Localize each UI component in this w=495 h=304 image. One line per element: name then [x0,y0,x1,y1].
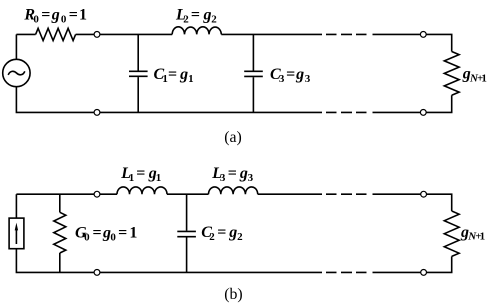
current source I1 box [9,218,24,249]
node terminal b-top-left [94,191,100,197]
wire bottom left [16,249,94,273]
capacitor C2 plates [177,231,196,236]
dashed continuation b-top [326,193,367,195]
resistor gN+1 load (a) [444,52,459,96]
wire source to top rail [15,34,17,59]
svg-text:L2=g2: L2=g2 [175,6,217,25]
svg-text:C2=g2: C2=g2 [201,224,243,243]
wire terminal to load corner [427,194,452,211]
current source arrow shaft [15,229,17,245]
wire source to top rail [15,194,17,218]
resistor G0 [54,212,66,253]
wire bottom middle [100,271,322,273]
svg-text:gN+1: gN+1 [462,66,487,85]
svg-text:C1=g1: C1=g1 [154,66,194,85]
capacitor C2 stem bottom [186,238,188,273]
sine symbol inside source [8,71,25,75]
dashed continuation a-top [326,33,367,35]
wire G0 junction to resistor [59,194,61,212]
inductor L3 [209,187,258,194]
node terminal a-top-left [94,32,100,38]
wire between inductors (through C2 node) [167,193,209,195]
svg-text:L3=g3: L3=g3 [211,165,253,184]
capacitor C3 stem bottom [252,77,254,112]
wire resistor to bottom rail [59,253,61,272]
wire dashed to right terminal [373,33,421,35]
svg-text:(a): (a) [224,129,242,146]
current source arrow head [15,223,18,231]
svg-text:L1=g1: L1=g1 [120,165,161,184]
capacitor C3 stem top [252,34,254,70]
wire load to bottom rail [427,256,452,272]
capacitor C3 plates [244,71,263,76]
source V1 circle [3,59,30,86]
node terminal a-bottom-left [94,110,100,116]
svg-text:C3=g3: C3=g3 [270,66,311,85]
node terminal a-bottom-right [420,110,426,116]
wire dashed to right terminal [373,193,421,195]
node terminal b-bottom-left [94,270,100,276]
wire load to bottom rail [426,95,452,112]
resistor R0 [36,28,76,40]
svg-text:G0=g0=1: G0=g0=1 [75,224,137,243]
dashed continuation b-bottom [326,271,367,273]
resistor gN+1 load (b) [444,211,459,256]
wire top-left rail [16,193,94,195]
wire top-left horizontal from source to resistor [16,33,35,35]
wire terminal to load corner [426,34,452,51]
wire inductor to dashed break [258,193,322,195]
wire inductor to dashed break [221,33,322,35]
dashed continuation a-bottom [326,111,367,113]
wire terminal to inductor L1 [100,193,117,195]
wire bottom right solid [373,271,421,273]
capacitor C2 stem top [186,194,188,231]
inductor L1 [117,187,167,194]
wire resistor to terminal [76,33,95,35]
svg-text:(b): (b) [224,286,242,303]
wire bottom left to source [16,87,94,113]
capacitor C1 stem top [137,34,139,70]
node terminal a-top-right [420,32,426,38]
node terminal b-bottom-right [421,270,427,276]
wire terminal to inductor (through C1 node) [100,33,172,35]
wire bottom middle [100,111,322,113]
node terminal b-top-right [421,191,427,197]
svg-text:R0=g0=1: R0=g0=1 [23,7,87,26]
svg-text:gN+1: gN+1 [460,224,485,243]
inductor L2 [172,27,221,35]
capacitor C1 plates [129,71,148,76]
wire bottom right solid [373,111,421,113]
capacitor C1 stem bottom [137,77,139,112]
